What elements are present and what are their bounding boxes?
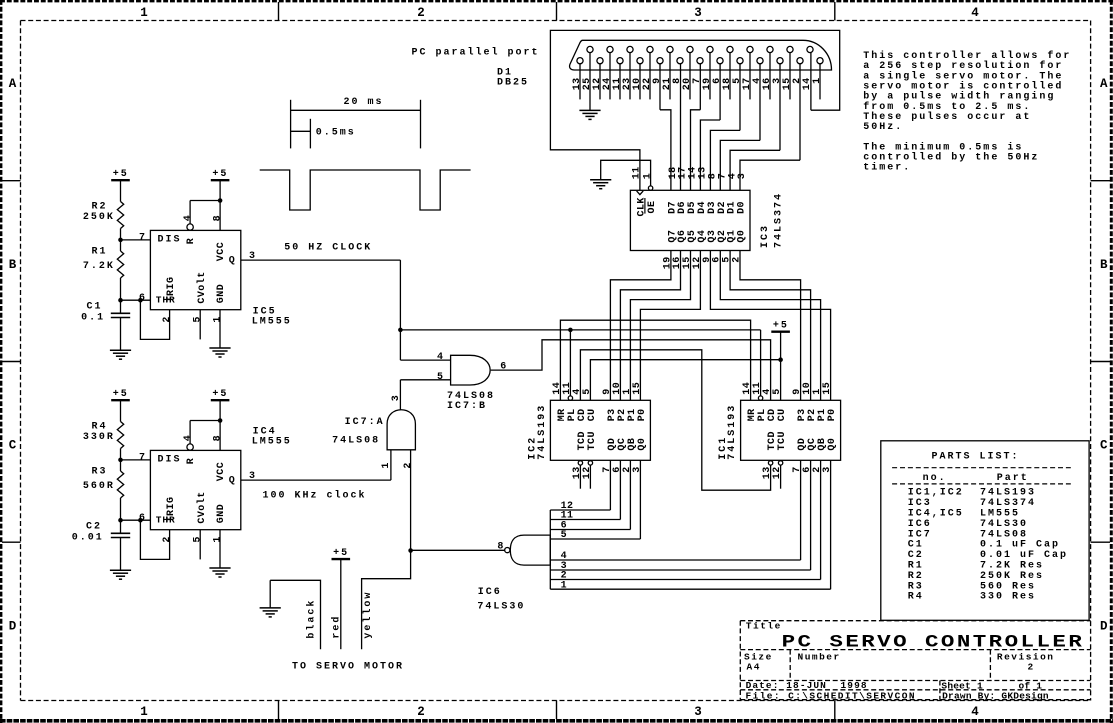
- svg-text:File: C:\SCHEDIT\SERVCON: File: C:\SCHEDIT\SERVCON: [746, 691, 916, 702]
- svg-text:74LS08: 74LS08: [980, 529, 1028, 540]
- svg-text:VCC: VCC: [216, 242, 227, 261]
- svg-text:red: red: [331, 615, 343, 639]
- svg-text:yellow: yellow: [362, 591, 374, 639]
- svg-text:7.2K: 7.2K: [83, 261, 115, 272]
- svg-text:2: 2: [417, 6, 425, 20]
- svg-text:74LS30: 74LS30: [980, 519, 1028, 530]
- svg-text:IC7:A: IC7:A: [345, 417, 385, 428]
- svg-text:IC1,IC2: IC1,IC2: [908, 488, 964, 499]
- svg-text:VCC: VCC: [216, 462, 227, 481]
- svg-text:3: 3: [632, 466, 643, 472]
- svg-text:3: 3: [737, 173, 748, 179]
- svg-text:250K Res: 250K Res: [980, 571, 1044, 582]
- svg-text:12: 12: [772, 466, 783, 479]
- svg-text:Q0: Q0: [637, 438, 648, 451]
- svg-text:2: 2: [731, 256, 742, 262]
- svg-text:R1: R1: [908, 561, 924, 572]
- svg-text:5: 5: [193, 536, 204, 542]
- svg-text:12: 12: [582, 466, 593, 479]
- svg-text:+5: +5: [212, 389, 228, 400]
- svg-text:4: 4: [183, 215, 194, 221]
- svg-text:DB25: DB25: [497, 78, 529, 89]
- svg-text:TCU: TCU: [587, 431, 598, 450]
- svg-text:timer.: timer.: [863, 162, 911, 174]
- svg-text:C: C: [1100, 439, 1108, 453]
- svg-text:100 KHz clock: 100 KHz clock: [263, 490, 367, 502]
- svg-text:OE: OE: [647, 201, 658, 214]
- svg-text:R: R: [186, 238, 197, 244]
- svg-text:0.01 uF Cap: 0.01 uF Cap: [980, 550, 1068, 561]
- svg-text:74LS193: 74LS193: [537, 404, 548, 460]
- svg-text:74LS08: 74LS08: [447, 391, 495, 402]
- svg-text:+5: +5: [773, 320, 789, 331]
- svg-text:20 ms: 20 ms: [344, 97, 384, 108]
- svg-text:R3: R3: [92, 467, 108, 478]
- svg-text:250K: 250K: [83, 212, 115, 223]
- svg-text:C1: C1: [908, 540, 924, 551]
- svg-text:A: A: [9, 77, 17, 91]
- svg-text:CLK: CLK: [636, 197, 647, 216]
- svg-text:B: B: [1100, 258, 1108, 272]
- svg-text:1: 1: [561, 580, 567, 591]
- svg-text:R: R: [186, 458, 197, 464]
- svg-text:50Hz.: 50Hz.: [863, 122, 903, 133]
- svg-text:3: 3: [694, 6, 702, 20]
- svg-text:C1: C1: [87, 302, 103, 313]
- svg-text:0.1 uF Cap: 0.1 uF Cap: [980, 540, 1060, 551]
- svg-text:LM555: LM555: [252, 317, 292, 328]
- svg-text:GND: GND: [216, 504, 227, 523]
- svg-text:Q: Q: [229, 256, 237, 267]
- svg-text:3: 3: [694, 705, 702, 719]
- svg-text:1: 1: [212, 536, 223, 542]
- svg-text:PC parallel port: PC parallel port: [412, 46, 540, 58]
- svg-text:A4: A4: [747, 661, 761, 672]
- svg-text:C2: C2: [908, 550, 924, 561]
- svg-text:560R: 560R: [83, 481, 115, 492]
- svg-text:black: black: [305, 599, 317, 639]
- svg-text:5: 5: [561, 530, 567, 541]
- svg-text:74LS193: 74LS193: [727, 404, 738, 460]
- svg-text:2: 2: [162, 316, 173, 322]
- svg-text:11: 11: [631, 166, 642, 179]
- svg-text:74LS08: 74LS08: [332, 435, 380, 446]
- svg-text:2: 2: [417, 705, 425, 719]
- svg-text:4: 4: [971, 6, 979, 20]
- svg-text:1: 1: [140, 705, 148, 719]
- svg-text:2: 2: [1028, 661, 1035, 672]
- svg-text:A: A: [1100, 77, 1108, 91]
- svg-text:3: 3: [822, 466, 833, 472]
- svg-text:0.1: 0.1: [81, 313, 105, 324]
- svg-text:P0: P0: [827, 408, 838, 421]
- svg-text:1: 1: [381, 462, 392, 468]
- svg-text:8: 8: [497, 542, 503, 553]
- svg-text:no.: no.: [923, 473, 947, 484]
- svg-text:IC7:B: IC7:B: [447, 401, 487, 412]
- svg-text:LM555: LM555: [980, 509, 1020, 520]
- svg-text:4: 4: [183, 435, 194, 441]
- svg-text:5: 5: [193, 316, 204, 322]
- svg-text:5: 5: [437, 372, 443, 383]
- svg-text:GND: GND: [216, 284, 227, 303]
- svg-text:1: 1: [812, 77, 823, 83]
- svg-text:Q0: Q0: [737, 230, 748, 243]
- svg-text:CU: CU: [587, 408, 598, 421]
- svg-text:R4: R4: [908, 592, 924, 603]
- svg-text:74LS374: 74LS374: [773, 192, 784, 248]
- svg-text:IC4,IC5: IC4,IC5: [908, 509, 964, 520]
- svg-text:50 HZ CLOCK: 50 HZ CLOCK: [284, 242, 372, 253]
- svg-text:Q: Q: [229, 476, 237, 487]
- svg-text:CVolt: CVolt: [196, 491, 208, 523]
- svg-text:1: 1: [140, 6, 148, 20]
- svg-text:R1: R1: [92, 247, 108, 258]
- svg-text:Number: Number: [798, 651, 841, 662]
- svg-text:5: 5: [582, 388, 593, 394]
- svg-text:R4: R4: [92, 422, 108, 433]
- svg-text:5: 5: [772, 388, 783, 394]
- svg-text:+5: +5: [113, 389, 129, 400]
- svg-text:R2: R2: [92, 202, 108, 213]
- svg-text:IC6: IC6: [478, 587, 502, 598]
- svg-text:+5: +5: [212, 169, 228, 180]
- svg-text:IC7: IC7: [908, 529, 932, 540]
- svg-text:THR: THR: [156, 295, 176, 306]
- svg-text:DIS: DIS: [158, 235, 182, 246]
- svg-text:3: 3: [391, 395, 402, 401]
- svg-text:CU: CU: [777, 408, 788, 421]
- svg-text:TO SERVO MOTOR: TO SERVO MOTOR: [292, 661, 404, 672]
- svg-text:15: 15: [822, 382, 833, 395]
- svg-text:2: 2: [162, 536, 173, 542]
- svg-text:7: 7: [139, 233, 145, 244]
- svg-text:D: D: [9, 619, 17, 633]
- svg-text:THR: THR: [156, 515, 176, 526]
- svg-text:74LS193: 74LS193: [980, 488, 1036, 499]
- svg-text:0.5ms: 0.5ms: [316, 127, 356, 138]
- svg-text:C2: C2: [86, 522, 102, 533]
- svg-text:D: D: [1100, 619, 1108, 633]
- svg-text:Part: Part: [997, 473, 1029, 484]
- svg-text:R2: R2: [908, 571, 924, 582]
- svg-text:15: 15: [632, 382, 643, 395]
- svg-text:330R: 330R: [83, 432, 115, 443]
- svg-text:4: 4: [971, 705, 979, 719]
- svg-text:8: 8: [213, 215, 224, 221]
- svg-text:B: B: [9, 258, 17, 272]
- svg-text:Drawn By: GKDesign: Drawn By: GKDesign: [942, 691, 1049, 702]
- svg-text:+5: +5: [113, 169, 129, 180]
- svg-text:LM555: LM555: [252, 437, 292, 448]
- svg-text:Revision: Revision: [997, 651, 1055, 662]
- svg-text:330 Res: 330 Res: [980, 592, 1036, 603]
- svg-text:DIS: DIS: [158, 455, 182, 466]
- svg-text:74LS30: 74LS30: [477, 602, 525, 613]
- svg-text:Title: Title: [746, 621, 782, 632]
- svg-text:TCU: TCU: [777, 431, 788, 450]
- svg-text:+5: +5: [333, 548, 349, 559]
- svg-text:560 Res: 560 Res: [980, 581, 1036, 592]
- svg-text:C: C: [9, 439, 17, 453]
- svg-text:74LS374: 74LS374: [980, 498, 1036, 509]
- svg-text:8: 8: [213, 435, 224, 441]
- svg-text:PARTS LIST:: PARTS LIST:: [932, 451, 1020, 462]
- svg-text:R3: R3: [908, 581, 924, 592]
- svg-text:P0: P0: [637, 408, 648, 421]
- svg-text:CVolt: CVolt: [196, 271, 208, 303]
- svg-text:1: 1: [642, 173, 653, 179]
- svg-text:IC6: IC6: [908, 519, 932, 530]
- svg-text:IC3: IC3: [760, 224, 771, 248]
- svg-text:IC3: IC3: [908, 498, 932, 509]
- svg-text:Q0: Q0: [827, 438, 838, 451]
- svg-text:Date: 18-JUN 1998: Date: 18-JUN 1998: [746, 680, 868, 691]
- svg-text:0.01: 0.01: [72, 533, 104, 544]
- svg-text:7.2K Res: 7.2K Res: [980, 561, 1044, 572]
- svg-text:2: 2: [403, 462, 414, 468]
- svg-text:PC SERVO CONTROLLER: PC SERVO CONTROLLER: [782, 632, 1085, 652]
- svg-text:D0: D0: [737, 201, 748, 214]
- svg-text:7: 7: [139, 453, 145, 464]
- svg-text:4: 4: [437, 352, 443, 363]
- svg-text:1: 1: [212, 316, 223, 322]
